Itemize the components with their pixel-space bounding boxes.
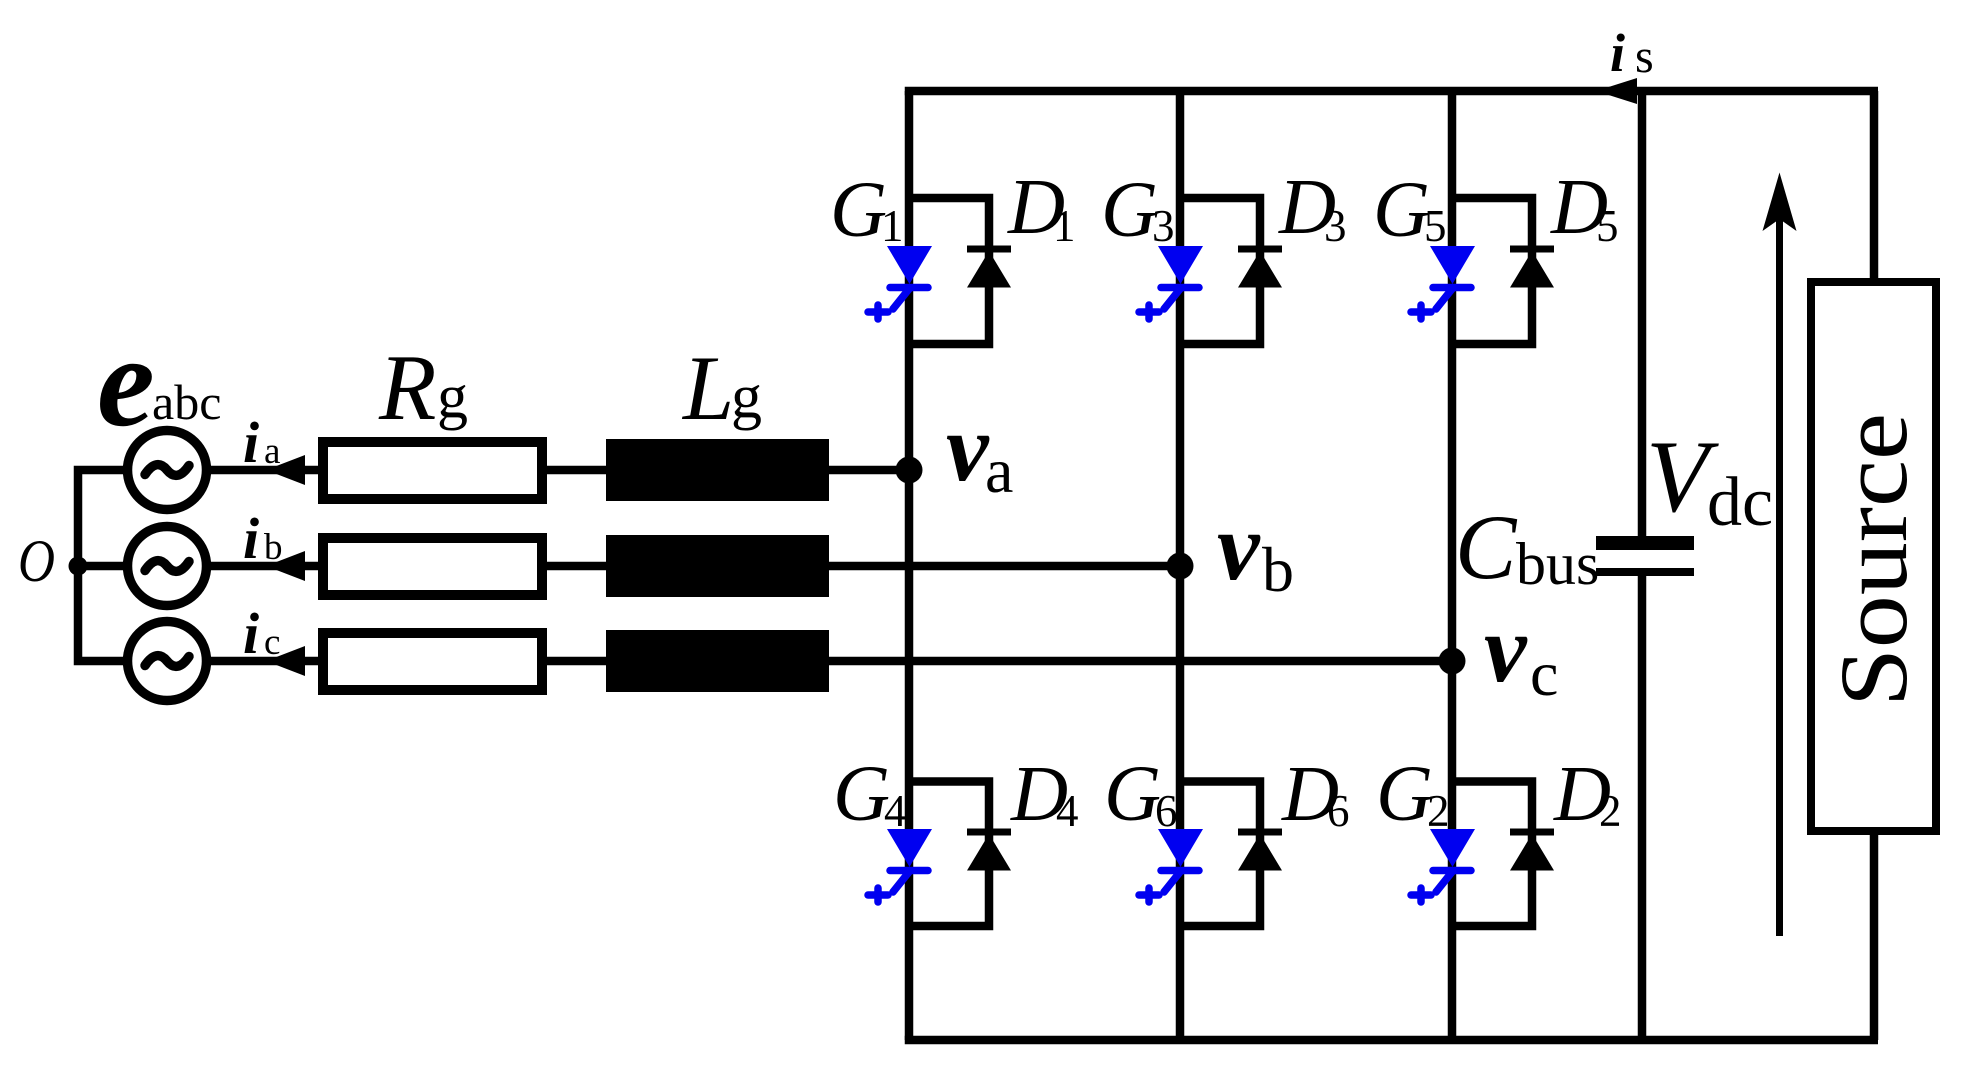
wire Source box to bottom bus (1870, 831, 1879, 1040)
svg-text:v: v (1217, 493, 1261, 600)
wire top DC bus (905, 87, 1878, 96)
svg-text:G: G (1104, 751, 1161, 838)
svg-text:1: 1 (1053, 201, 1076, 251)
inductor Lg phase a (606, 439, 829, 501)
thyristor G2 (1411, 829, 1475, 902)
wire source a to resistor (208, 466, 318, 475)
svg-text:G: G (1376, 751, 1433, 838)
wire resistor c to inductor (547, 657, 606, 666)
svg-text:G: G (830, 167, 887, 254)
svg-text:3: 3 (1152, 201, 1175, 251)
svg-text:dc: dc (1707, 464, 1773, 541)
svg-text:G: G (833, 751, 890, 838)
svg-text:g: g (731, 363, 762, 431)
svg-text:a: a (264, 431, 280, 472)
wire top bus to Source box (1870, 91, 1879, 282)
thyristor G4 (868, 829, 932, 902)
arrow current ib (266, 551, 305, 581)
AC source phase b (128, 527, 207, 606)
wire neutral to source b (78, 562, 123, 571)
svg-text:3: 3 (1324, 201, 1347, 251)
svg-text:bus: bus (1516, 531, 1599, 597)
thyristor G3 (1139, 246, 1203, 319)
wire diode bracket of cell 4 (909, 782, 989, 927)
wire bridge leg 2 (1176, 91, 1185, 1040)
wire inductor c to leg 3 (829, 657, 1452, 666)
wire resistor b to inductor (547, 562, 606, 571)
wire resistor a to inductor (547, 466, 606, 475)
svg-text:v: v (946, 394, 990, 501)
svg-text:i: i (243, 506, 259, 571)
resistor Rg phase b (323, 538, 542, 595)
svg-text:i: i (243, 410, 259, 475)
svg-text:6: 6 (1155, 786, 1178, 836)
diode D4 (967, 832, 1011, 871)
svg-text:4: 4 (1056, 786, 1079, 836)
svg-text:v: v (1484, 595, 1528, 702)
wire diode bracket of cell 5 (1452, 198, 1532, 344)
wire left neutral bus (78, 470, 123, 661)
capacitor Cbus bottom plate (1596, 568, 1694, 576)
svg-text:5: 5 (1596, 201, 1619, 251)
svg-text:g: g (437, 363, 468, 431)
thyristor G6 (1139, 829, 1203, 902)
wire diode bracket of cell 2 (1452, 782, 1532, 927)
svg-text:s: s (1635, 30, 1654, 83)
svg-text:1: 1 (881, 201, 904, 251)
svg-text:Source: Source (1820, 413, 1927, 707)
wire diode bracket of cell 3 (1180, 198, 1260, 344)
wire capacitor branch upper (1638, 91, 1647, 536)
svg-text:c: c (1530, 638, 1558, 709)
thyristor G1 (868, 246, 932, 319)
wire bottom DC bus (905, 1036, 1878, 1045)
svg-text:G: G (1101, 167, 1158, 254)
svg-text:2: 2 (1599, 786, 1622, 836)
AC source phase a (128, 431, 207, 510)
arrow current is (1596, 78, 1637, 104)
wire inductor b to leg 2 (829, 562, 1180, 571)
diode D1 (967, 249, 1011, 288)
svg-text:c: c (264, 622, 280, 663)
wire diode bracket of cell 6 (1180, 782, 1260, 927)
node vc junction dot (1439, 648, 1466, 675)
arrow Vdc measurement (1763, 173, 1797, 937)
svg-text:R: R (378, 336, 436, 440)
node vb junction dot (1167, 553, 1194, 580)
capacitor Cbus top plate (1596, 536, 1694, 550)
svg-text:b: b (264, 527, 283, 568)
resistor Rg phase a (323, 442, 542, 499)
wire inductor a to leg 1 (829, 466, 909, 475)
thyristor G5 (1411, 246, 1475, 319)
diode D6 (1238, 832, 1282, 871)
arrow current ic (266, 646, 305, 676)
wire source c to resistor (208, 657, 318, 666)
wire capacitor branch lower (1638, 576, 1647, 1040)
svg-text:G: G (1373, 167, 1430, 254)
svg-text:4: 4 (884, 786, 907, 836)
svg-text:5: 5 (1424, 201, 1447, 251)
wire source b to resistor (208, 562, 318, 571)
svg-text:C: C (1455, 496, 1518, 598)
Source box (1811, 282, 1936, 831)
svg-text:i: i (1610, 23, 1625, 83)
svg-text:6: 6 (1327, 786, 1350, 836)
diode D3 (1238, 249, 1282, 288)
arrow current ia (266, 455, 305, 485)
svg-text:a: a (985, 435, 1013, 506)
wire bridge leg 3 (1448, 91, 1457, 1040)
inductor Lg phase c (606, 630, 829, 692)
inductor Lg phase b (606, 535, 829, 597)
wire bridge leg 1 (905, 91, 914, 1040)
wire diode bracket of cell 1 (909, 198, 989, 344)
svg-text:O: O (18, 528, 55, 594)
diode D5 (1510, 249, 1554, 288)
svg-text:abc: abc (152, 374, 221, 430)
diode D2 (1510, 832, 1554, 871)
AC source phase c (128, 622, 207, 701)
svg-text:L: L (681, 337, 734, 439)
svg-text:2: 2 (1427, 786, 1450, 836)
svg-text:i: i (243, 601, 259, 666)
resistor Rg phase c (323, 633, 542, 690)
svg-text:b: b (1262, 534, 1294, 605)
node va junction dot (896, 457, 923, 484)
node O junction dot (69, 557, 88, 576)
